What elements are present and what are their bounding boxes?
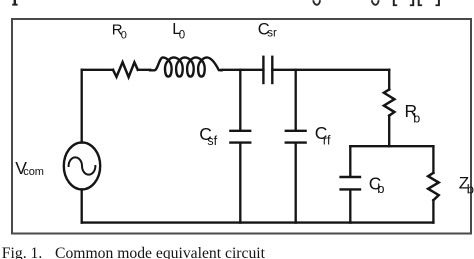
resistor Rb: [384, 90, 395, 116]
capacitor Csf top plate: [230, 130, 250, 132]
wire Cb branch upper: [349, 146, 351, 176]
capacitor Crf bottom plate: [286, 141, 306, 143]
wire Cb branch lower: [349, 191, 351, 223]
capacitor Csr left plate: [262, 57, 264, 83]
top cropped fragment g1: [313, 0, 320, 5]
top cropped bracket ]: [410, 0, 414, 6]
top cropped text fragment p: [12, 0, 17, 6]
inductor L0: [150, 57, 222, 76]
top cropped bracket [ 2: [418, 0, 422, 6]
svg-text:b: b: [413, 112, 420, 126]
svg-text:b: b: [377, 181, 384, 196]
svg-text:sf: sf: [207, 134, 217, 148]
wire source bottom to bottom wire: [81, 189, 83, 222]
svg-text:sr: sr: [267, 28, 277, 40]
svg-text:Common mode equivalent circuit: Common mode equivalent circuit: [55, 245, 266, 259]
wire Crf branch lower: [295, 144, 297, 223]
wire Rb to sub-loop top: [388, 116, 390, 147]
source sine wave: [69, 157, 96, 174]
resistor R0: [113, 62, 138, 77]
capacitor Cb bottom plate: [341, 188, 360, 190]
top cropped fragment g2: [372, 0, 379, 5]
capacitor Crf top plate: [286, 130, 306, 132]
wire right vertical down to Rb: [388, 70, 390, 90]
wire Zb branch upper: [432, 146, 434, 173]
wire sub-loop top edge: [350, 145, 433, 147]
resistor Zb: [428, 173, 439, 200]
wire L0 to Csr (junction with Csf branch): [222, 69, 264, 71]
wire Csr to right corner (junction with Crf branch): [272, 69, 389, 71]
svg-text:com: com: [23, 166, 44, 178]
capacitor Cb top plate: [341, 176, 360, 178]
svg-text:Fig. 1.: Fig. 1.: [2, 245, 43, 259]
wire Csf branch upper: [239, 70, 241, 130]
top cropped bracket [: [393, 0, 440, 6]
wire bottom: [82, 221, 434, 223]
svg-text:b: b: [467, 181, 474, 196]
wire left vertical (source to top wire): [81, 70, 83, 143]
top cropped bracket ] 2: [436, 0, 440, 6]
source Vcom circle: [64, 142, 100, 189]
wire top-left horizontal: [82, 69, 113, 71]
svg-text:rf: rf: [323, 133, 331, 147]
capacitor Csr right plate: [271, 57, 273, 83]
wire Zb branch lower: [432, 200, 434, 222]
wire R0 to L0: [138, 69, 150, 71]
capacitor Csf bottom plate: [230, 141, 250, 143]
wire Crf branch upper: [295, 70, 297, 130]
wire Csf branch lower: [239, 144, 241, 223]
svg-text:0: 0: [121, 29, 127, 41]
svg-text:0: 0: [179, 30, 185, 42]
